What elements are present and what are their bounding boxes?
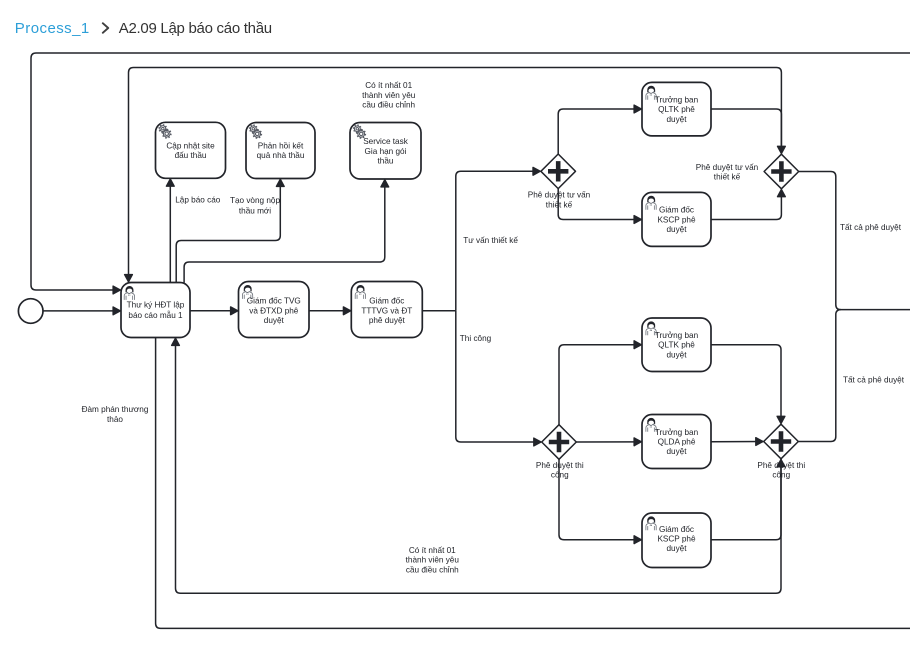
wire QLTK2 to G4 top [711,345,781,424]
svg-text:Trưởng ban: Trưởng ban [655,331,699,340]
gateway G1 Phe duyet tu van thiet ke (split) [541,154,576,189]
svg-text:cầu điều chỉnh: cầu điều chỉnh [362,101,415,110]
svg-text:công: công [772,471,790,480]
wire G3 top to QLTK2 [559,345,641,425]
gateway G3 Phe duyet thi cong (split) [542,425,577,460]
gateway G4 join (Phe duyet thi cong) [764,424,799,459]
wire G4 bottom adjust loop back to Thu ky bottom [176,338,782,593]
wire G4 right to off-canvas (Tat ca phe duyet) [799,310,841,442]
wire Thu ky to TVG [190,310,238,312]
svg-text:thiết kế: thiết kế [714,173,741,182]
svg-text:thành viên yêu: thành viên yêu [406,556,460,565]
svg-text:công: công [551,471,569,480]
task B Phan hoi ket qua nha thau (service) [246,123,315,179]
svg-text:KSCP phê: KSCP phê [657,535,696,544]
task D Thu ky HDT lap bao cao mau 1 (user) [121,283,190,338]
wire G1 top to QLTK1 [558,109,641,154]
task A Cap nhat site dau thau (service) [156,122,226,178]
task E Giam doc TVG va DTXD phe duyet (user) [239,282,310,338]
svg-text:thiết kế: thiết kế [546,200,573,209]
wire Thu ky to Cap nhat site (Lap bao cao) [169,179,171,282]
svg-text:Thư ký HĐT lập: Thư ký HĐT lập [127,300,185,309]
svg-text:Phê duyệt thi: Phê duyệt thi [757,461,805,470]
svg-text:duyệt: duyệt [666,115,687,124]
wire KSCP1 to G2 bottom [711,190,781,220]
svg-text:Phê duyệt tư vấn: Phê duyệt tư vấn [696,163,759,172]
svg-text:báo cáo mẫu 1: báo cáo mẫu 1 [128,310,183,320]
svg-text:Cập nhật site: Cập nhật site [166,141,215,150]
svg-text:Tất cả phê duyệt: Tất cả phê duyệt [840,223,902,232]
svg-text:Phê duyệt thi: Phê duyệt thi [536,461,584,470]
start event [18,299,43,324]
wire TVG to TTTVG [309,310,351,312]
svg-text:phê duyệt: phê duyệt [369,316,406,325]
svg-text:Trưởng ban: Trưởng ban [655,95,699,104]
svg-text:Giám đốc: Giám đốc [369,297,404,306]
wire outer loop (off-canvas right, top y=53, left x=31, into task Thu ky left) [31,53,910,290]
svg-text:Service task: Service task [363,137,408,146]
svg-text:Tư vấn thiết kế: Tư vấn thiết kế [463,236,518,245]
wire KSCP2 to G4 bottom [711,460,781,540]
svg-text:Trưởng ban: Trưởng ban [655,428,699,437]
svg-text:duyệt: duyệt [666,447,687,456]
wire G1 bottom to KSCP1 [558,189,641,220]
svg-text:và ĐTXD phê: và ĐTXD phê [249,306,299,315]
svg-text:QLTK phê: QLTK phê [658,105,695,114]
svg-text:đấu thầu: đấu thầu [175,151,207,160]
wire start event to task Thu ky [43,310,120,312]
svg-text:duyệt: duyệt [666,350,687,359]
task C Service task Gia han goi thau (service) [350,123,421,180]
breadcrumb [15,20,272,37]
svg-text:KSCP phê: KSCP phê [657,215,696,224]
svg-text:Giám đốc: Giám đốc [659,525,694,534]
wire Thu ky to Phan hoi ket qua (Tao vong nop thau moi) [176,179,280,282]
svg-text:QLTK phê: QLTK phê [658,341,695,350]
wire QLTK1 to G2 top [711,109,781,153]
gateway G2 join (Phe duyet tu van thiet ke) [764,154,799,189]
svg-text:duyệt: duyệt [666,225,687,234]
task H Giam doc KSCP phe duyet 1 (user) [642,192,711,246]
svg-text:Có ít nhất 01: Có ít nhất 01 [365,81,412,90]
svg-text:duyệt: duyệt [666,544,687,553]
task F Giam doc TTTVG va DT phe duyet (user) [351,282,422,338]
svg-text:QLDA phê: QLDA phê [658,438,696,447]
svg-text:thảo: thảo [107,415,123,424]
wire G2 right to off-canvas (Tat ca phe duyet) [799,172,910,310]
wire G3 right to QLDA [577,441,642,443]
svg-text:Tất cả phê duyệt: Tất cả phê duyệt [843,376,905,385]
wire Thu ky bottom Dam phan thuong thao loop to off-canvas [156,338,910,629]
svg-text:thầu mới: thầu mới [239,206,271,215]
wire top adjust loop (x=781 down-arrow into gateway G2 top, along y=67.5, down x=128.5 into task Thu ky top) [129,68,782,282]
svg-text:thầu: thầu [378,156,394,165]
svg-text:thành viên yêu: thành viên yêu [362,91,416,100]
svg-text:Tạo vòng nộp: Tạo vòng nộp [230,196,281,205]
svg-text:Phê duyệt tư vấn: Phê duyệt tư vấn [528,191,591,200]
wire TTTVG to branch junction [422,310,456,312]
svg-text:duyệt: duyệt [264,316,285,325]
wire branch Tu van thiet ke to G1 left [456,171,540,310]
svg-text:Có ít nhất 01: Có ít nhất 01 [409,546,456,555]
wire Thu ky to Service task Gia han goi thau [184,180,385,283]
task J Truong ban QLDA phe duyet (user) [642,415,711,469]
wire QLDA to G4 left [711,441,763,443]
svg-text:Giám đốc: Giám đốc [659,206,694,215]
wire branch Thi cong to G3 left [456,311,541,442]
svg-text:Giám đốc TVG: Giám đốc TVG [247,297,301,306]
svg-text:cầu điều chỉnh: cầu điều chỉnh [406,565,459,574]
svg-text:quả nhà thầu: quả nhà thầu [257,151,305,160]
task G Truong ban QLTK phe duyet 1 (user) [642,82,711,135]
wire G3 bottom to KSCP2 [559,460,641,540]
svg-text:TTTVG và ĐT: TTTVG và ĐT [361,306,412,315]
svg-text:Gia hạn gói: Gia hạn gói [365,147,407,156]
task I Truong ban QLTK phe duyet 2 (user) [642,318,711,372]
svg-text:Phản hồi kết: Phản hồi kết [258,142,304,151]
svg-text:Thi công: Thi công [460,334,492,343]
task K Giam doc KSCP phe duyet 2 (user) [642,513,711,568]
svg-text:Lập báo cáo: Lập báo cáo [175,195,221,204]
svg-text:Đàm phán thương: Đàm phán thương [82,405,149,414]
